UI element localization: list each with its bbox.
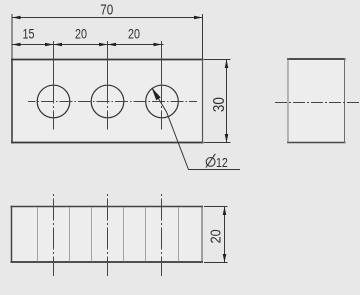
vertical centerline hole 1 <box>53 41 55 130</box>
dimension 20 (thickness) extension lines <box>204 207 228 263</box>
hidden line hole3 left <box>145 208 147 262</box>
leader arrowhead at hole 3 <box>152 88 161 101</box>
dimension 70 arrowhead right <box>194 16 203 20</box>
vertical centerline hole 3 <box>161 41 163 130</box>
svg-text:20: 20 <box>207 229 224 243</box>
dimension 30 arrowhead bottom <box>225 134 229 143</box>
svg-text:30: 30 <box>211 97 228 112</box>
dimension 70 line <box>12 14 203 59</box>
hidden line hole2 right <box>123 208 125 262</box>
dimension 20 first arrowhead right <box>99 43 108 47</box>
side view centerline <box>275 102 359 104</box>
hole 3 circle <box>146 85 179 118</box>
dimension 30 extension lines <box>204 60 231 143</box>
dimension 15 arrowhead right <box>45 43 54 47</box>
dimension 20 thickness arrowhead bottom <box>223 254 227 263</box>
leader line to hole 3 <box>153 89 241 170</box>
dimension 30 arrowhead top <box>225 60 229 69</box>
bottom view centerline hole 2 <box>107 194 109 276</box>
hidden line hole3 right <box>178 208 180 262</box>
svg-text:70: 70 <box>100 1 113 18</box>
horizontal centerline through holes <box>28 101 197 103</box>
side view outline <box>287 58 346 143</box>
svg-text:20: 20 <box>128 26 140 41</box>
hidden line hole1 right <box>69 208 71 262</box>
hidden line hole1 left <box>37 208 39 262</box>
bottom view centerline hole 3 <box>161 194 163 276</box>
dimension 20 second arrowhead left <box>108 43 117 47</box>
dimension 20 second arrowhead right <box>154 43 163 47</box>
svg-text:15: 15 <box>22 26 34 41</box>
front view plate outline <box>11 59 204 144</box>
svg-text:20: 20 <box>75 26 87 41</box>
dimension 70 arrowhead left <box>12 16 21 20</box>
vertical centerline hole 2 <box>107 41 109 130</box>
dimension 20 thickness arrowhead top <box>223 207 227 216</box>
diameter label Ø12 <box>206 154 215 168</box>
dimension 20 first arrowhead left <box>54 43 63 47</box>
bottom view outline <box>11 206 204 263</box>
hole 1 circle <box>37 85 70 118</box>
hidden line hole2 left <box>91 208 93 262</box>
svg-text:12: 12 <box>216 155 228 170</box>
bottom view centerline hole 1 <box>53 194 55 276</box>
hole 2 circle <box>91 85 124 118</box>
dimension 15 arrowhead left <box>12 43 21 47</box>
dimension 15/20/20 line <box>12 44 164 46</box>
